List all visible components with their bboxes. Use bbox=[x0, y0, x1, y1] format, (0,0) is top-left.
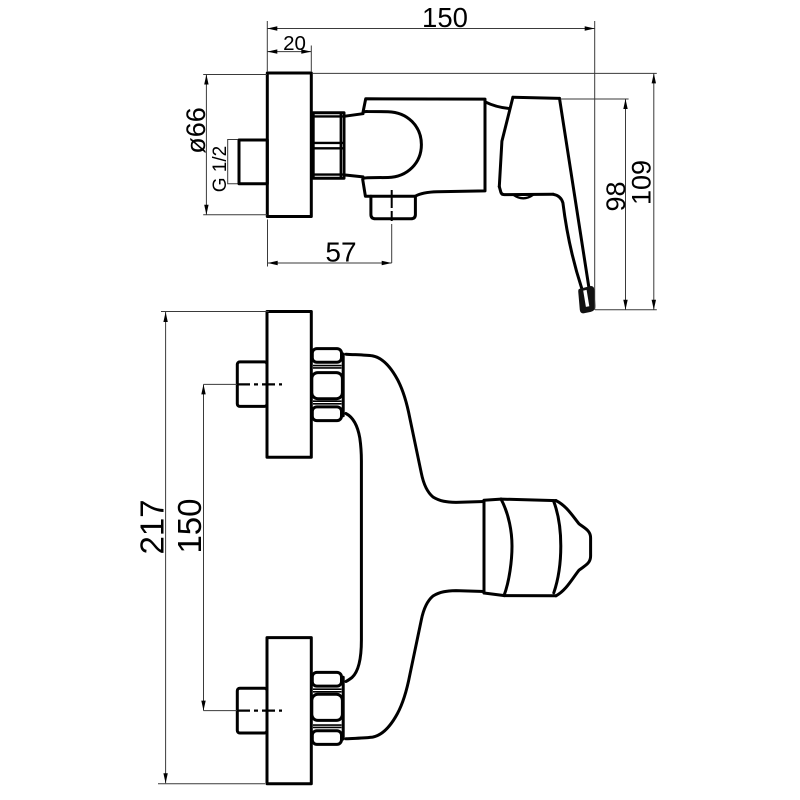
svg-text:217: 217 bbox=[133, 499, 170, 554]
svg-text:109: 109 bbox=[627, 160, 657, 205]
svg-text:150: 150 bbox=[422, 2, 468, 33]
svg-text:150: 150 bbox=[171, 498, 208, 553]
svg-text:57: 57 bbox=[325, 237, 356, 268]
svg-text:ø66: ø66 bbox=[181, 107, 211, 154]
svg-text:20: 20 bbox=[283, 32, 306, 55]
svg-text:G 1/2: G 1/2 bbox=[210, 146, 231, 192]
